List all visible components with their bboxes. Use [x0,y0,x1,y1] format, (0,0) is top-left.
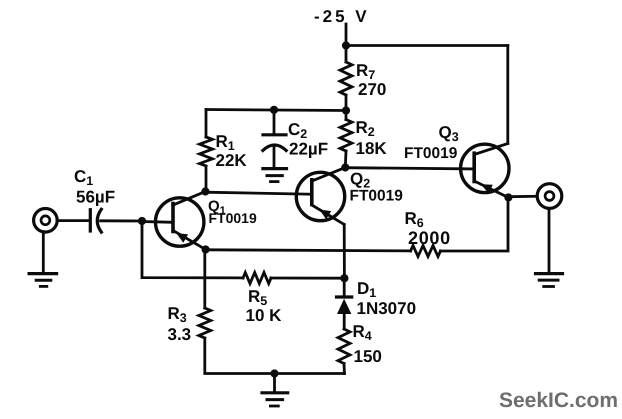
ground for input terminal [29,232,56,287]
resistor R6 [411,246,441,257]
wire top rail [346,44,508,47]
resistor R7 [340,62,352,95]
svg-text:Q3: Q3 [439,123,459,144]
wire output node to terminal [508,195,537,198]
wire base node to Q1 base [142,220,172,224]
svg-text:R4: R4 [353,322,372,343]
node Q1 base junction [138,217,146,225]
resistor R3 [199,308,211,338]
svg-text:SeekIC.com: SeekIC.com [499,389,618,412]
label R6 value 2000 [405,209,451,248]
label -25V [314,7,370,26]
svg-text:C2: C2 [288,120,307,141]
node bottom ground junction [270,369,278,377]
wire R1 bottom lead [205,166,208,192]
node Q1 emitter junction [202,245,210,253]
transistor Q3 [461,144,509,198]
node output junction [504,193,512,201]
wire C1 to base node [101,219,142,222]
svg-text:FT0019: FT0019 [350,188,404,205]
label Q3 FT0019 [404,123,459,162]
wire R5 to D1 node [271,277,344,280]
svg-text:R3: R3 [168,304,187,325]
resistor R1 [200,137,213,166]
wire R6 to output node [441,198,509,252]
label R7 value 270 [356,61,386,99]
svg-text:R5: R5 [248,287,267,308]
wire R2 bottom lead [344,151,348,168]
label C1 value 56uF [74,167,115,207]
svg-text:18K: 18K [356,139,388,158]
wire rail R1/C2 top [206,110,346,111]
svg-text:22µF: 22µF [289,140,328,159]
label R3 value 3.3 [168,304,192,344]
transistor Q1 [156,192,206,250]
svg-text:-25 V: -25 V [314,7,370,26]
svg-text:R6: R6 [405,209,424,230]
ground for output terminal [536,209,563,287]
svg-text:D1: D1 [357,279,376,300]
node C2 tap [270,106,278,114]
resistor R5 [243,273,271,284]
capacitor C1 [90,209,101,232]
transistor Q2 [205,168,345,225]
diode D1 [337,278,352,329]
capacitor C2 [263,110,286,167]
wire R4 bottom lead [343,364,346,374]
watermark SeekIC.com [499,389,618,412]
power supply -25V stub wire [345,24,348,46]
resistor R4 [338,329,350,364]
wire Q2 emitter down [343,225,346,279]
label D1 value 1N3070 [357,279,417,318]
svg-text:C1: C1 [74,167,93,188]
svg-text:FT0019: FT0019 [404,145,458,162]
node Q2 collector junction [341,163,349,171]
label R4 value 150 [353,322,382,366]
node R5/D1 junction [340,274,348,282]
label R5 value 10K [246,287,283,325]
label R1 value 22K [216,132,248,170]
svg-text:R7: R7 [356,61,375,82]
svg-text:270: 270 [358,80,386,99]
wire Q1 emitter down to R3 [203,250,206,309]
label R2 value 18K [356,118,388,158]
node top rail junction [342,41,350,49]
ground bottom center [262,374,288,407]
wire right drop to Q3 collector [506,46,509,144]
node Q1 collector junction [201,187,209,195]
svg-text:R1: R1 [216,132,235,153]
svg-text:R2: R2 [356,118,375,139]
wire input terminal to C1 [57,219,88,222]
svg-text:22K: 22K [216,151,248,170]
svg-text:150: 150 [354,347,382,366]
input terminal J1 [34,209,58,233]
wire Q1 base node down [142,221,243,278]
label C2 value 22uF [288,120,328,159]
wire R7 top lead [345,46,348,63]
wire R3 to bottom rail [205,338,345,374]
label Q1 FT0019 [208,198,257,226]
node R7/R1-rail/R2 junction [342,106,350,114]
svg-text:1N3070: 1N3070 [357,299,417,318]
ground for C2 [263,169,287,182]
output terminal J2 [537,184,562,209]
svg-text:3.3: 3.3 [168,325,192,344]
label Q2 FT0019 [350,170,404,205]
svg-text:10 K: 10 K [246,306,283,325]
svg-text:2000: 2000 [408,228,451,248]
wire R7 bottom lead [345,95,348,111]
resistor R2 [340,120,352,152]
wire R2 top lead [345,111,348,120]
svg-text:FT0019: FT0019 [209,210,257,226]
wire Q1 emitter to R6 [206,250,411,251]
svg-text:56µF: 56µF [76,188,115,207]
wire Q2 collector node to Q3 base [345,168,474,169]
wire R1 top lead [205,110,208,138]
